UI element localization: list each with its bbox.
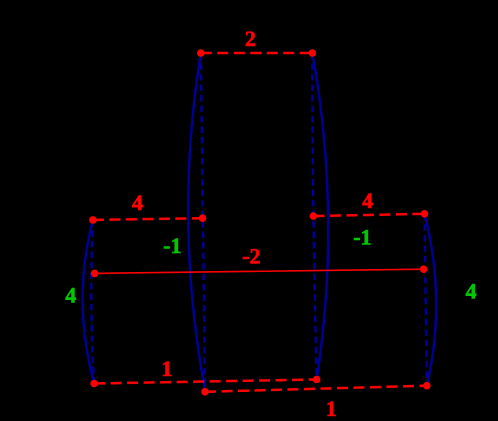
bottom dashed red edge B, weight 1	[205, 386, 427, 392]
node transversal right	[420, 265, 428, 273]
svg-text:1: 1	[326, 396, 337, 421]
node bottom 3	[313, 376, 321, 384]
right tube boundary, solid front arc	[425, 214, 437, 386]
bottom dashed red edge A, weight 1	[94, 380, 317, 384]
left middle dashed red edge, weight 4	[93, 218, 203, 220]
middle tube left boundary, solid front arc	[188, 53, 205, 391]
middle tube right boundary, solid front arc	[312, 53, 328, 380]
middle tube right boundary, dashed back arc	[312, 53, 316, 380]
left tube boundary, dashed back arc	[91, 220, 94, 384]
svg-text:1: 1	[161, 356, 172, 381]
right tube boundary, dashed back arc	[425, 214, 427, 386]
top dashed red edge, weight 2	[201, 52, 312, 55]
node bottom 2	[201, 388, 209, 396]
svg-text:-1: -1	[353, 225, 371, 250]
left tube boundary, solid front arc	[83, 220, 95, 384]
svg-text:4: 4	[362, 188, 373, 213]
node mid-left inner	[199, 214, 207, 222]
solid red transversal, weight -2	[95, 269, 424, 273]
node bottom 1	[90, 380, 98, 388]
right middle dashed red edge, weight 4	[313, 214, 424, 216]
node mid-right inner	[310, 212, 318, 220]
node top-left	[197, 49, 205, 57]
node top-right	[309, 49, 317, 57]
svg-text:-1: -1	[163, 233, 181, 258]
node transversal left	[91, 270, 99, 278]
node bottom 4	[423, 382, 431, 390]
node mid-right outer	[421, 210, 429, 218]
middle tube left boundary, dashed back arc	[201, 53, 205, 391]
svg-text:4: 4	[132, 190, 143, 215]
svg-text:4: 4	[65, 283, 76, 308]
svg-text:2: 2	[245, 26, 256, 51]
node mid-left outer	[89, 216, 97, 224]
svg-text:4: 4	[466, 279, 477, 304]
svg-text:-2: -2	[242, 243, 260, 268]
